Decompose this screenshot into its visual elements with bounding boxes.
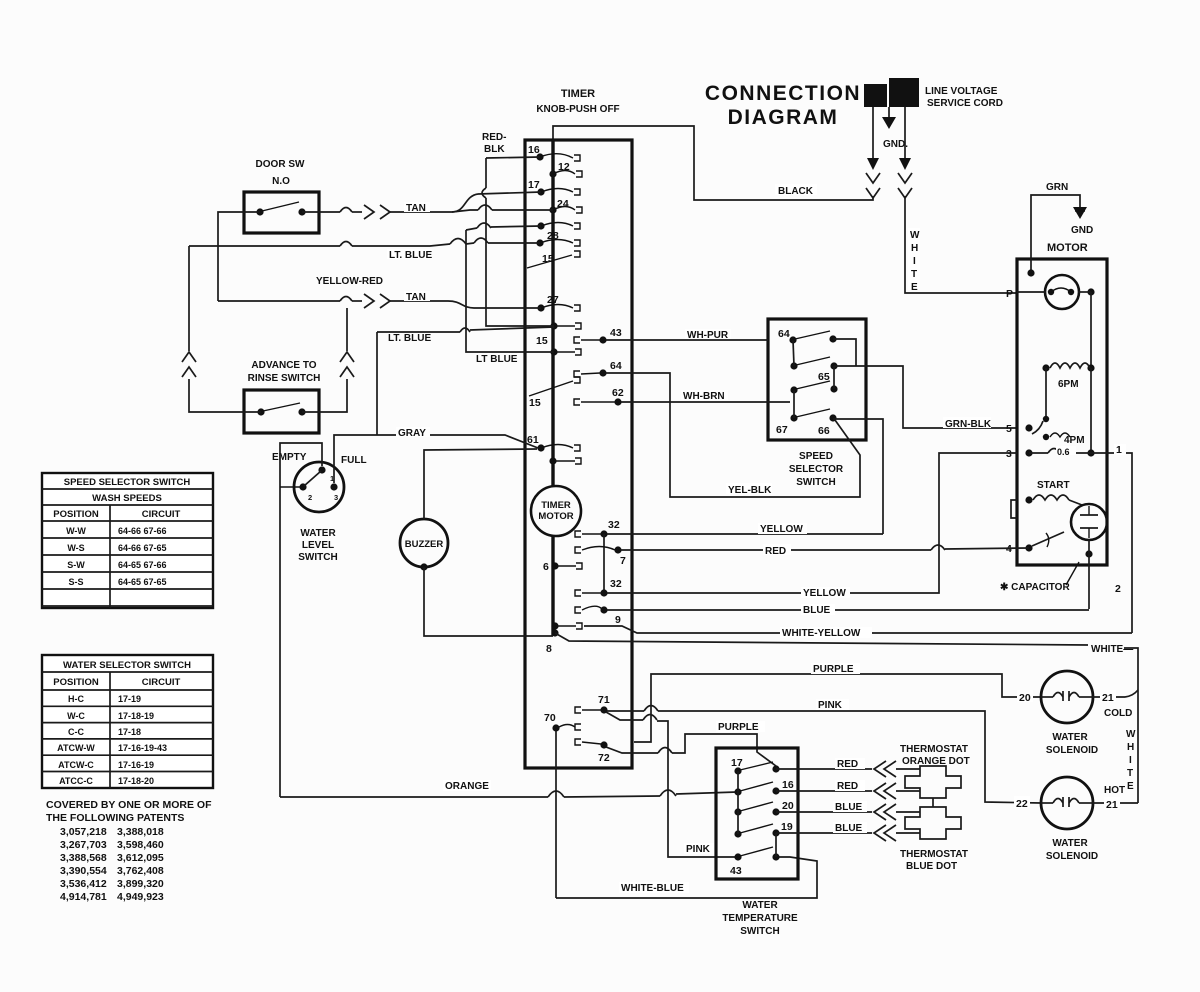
table speed selector switch (42, 473, 213, 608)
wire GRN (motor ground) (1027, 182, 1080, 277)
svg-text:71: 71 (598, 694, 610, 706)
svg-text:1: 1 (1116, 444, 1122, 456)
timer node 61 (527, 434, 580, 452)
svg-text:GND: GND (1071, 225, 1093, 236)
ground (motor) (1071, 207, 1093, 236)
svg-text:WATER: WATER (300, 528, 336, 539)
svg-text:YEL-BLK: YEL-BLK (728, 485, 772, 496)
svg-text:17: 17 (731, 757, 743, 769)
svg-text:ADVANCE TO: ADVANCE TO (251, 360, 316, 371)
svg-text:THERMOSTAT: THERMOSTAT (900, 849, 968, 860)
svg-text:BLUE: BLUE (835, 823, 863, 834)
wire RED (lower, water temp switch 16) (776, 780, 920, 799)
svg-text:START: START (1037, 480, 1070, 491)
wire left feeder (lt.blue riser to rinse switch) (182, 246, 261, 412)
svg-text:3: 3 (1006, 448, 1012, 460)
svg-text:WASH SPEEDS: WASH SPEEDS (92, 493, 162, 504)
line voltage service cord plug J1 (864, 78, 1003, 109)
svg-text:I: I (1129, 755, 1132, 766)
svg-text:PINK: PINK (686, 844, 711, 855)
svg-text:64-65 67-66: 64-65 67-66 (118, 560, 167, 570)
svg-text:3,899,320: 3,899,320 (117, 878, 164, 890)
svg-text:RED-: RED- (482, 132, 506, 143)
svg-text:3,390,554: 3,390,554 (60, 865, 107, 877)
wire PURPLE (timer 72 branch to water temp switch) (606, 721, 776, 766)
svg-text:SELECTOR: SELECTOR (789, 464, 844, 475)
svg-text:15: 15 (536, 335, 548, 347)
svg-text:H: H (1127, 742, 1134, 753)
title CONNECTION DIAGRAM (705, 82, 861, 129)
wire WHITE (timer 8 to solenoids) (555, 633, 1138, 803)
svg-text:67: 67 (776, 424, 788, 436)
svg-text:W-W: W-W (66, 526, 86, 536)
water temperature switch S5 (716, 748, 798, 937)
svg-text:9: 9 (615, 614, 621, 626)
capacitor C1 (1000, 504, 1121, 595)
svg-text:LT. BLUE: LT. BLUE (388, 333, 431, 344)
wire buzzer top to timer 61 (424, 449, 537, 519)
svg-text:BLUE: BLUE (803, 605, 831, 616)
svg-text:LT BLUE: LT BLUE (476, 354, 518, 365)
wire line cord black pin (866, 107, 880, 198)
svg-text:WHITE-YELLOW: WHITE-YELLOW (782, 628, 861, 639)
svg-text:DOOR SW: DOOR SW (256, 159, 305, 170)
svg-text:GRN: GRN (1046, 182, 1068, 193)
svg-text:W: W (910, 230, 920, 241)
svg-text:3,057,218: 3,057,218 (60, 826, 107, 838)
svg-text:BLACK: BLACK (778, 186, 814, 197)
wire BLUE (lower, water temp switch 19) (776, 822, 920, 841)
wire YEL-BLK (timer 64 to speed selector 66) (606, 373, 860, 497)
svg-text:W-C: W-C (67, 711, 85, 721)
svg-text:SWITCH: SWITCH (298, 552, 337, 563)
wire door switch left riser (218, 212, 260, 301)
timer contact node (537, 222, 580, 229)
svg-text:TIMER: TIMER (541, 500, 571, 511)
svg-text:WATER: WATER (742, 900, 778, 911)
svg-text:SOLENOID: SOLENOID (1046, 851, 1098, 862)
wire WHITE-YELLOW (timer 8 to motor 1) (584, 444, 1132, 639)
motor node 3 / winding 0.6 / node 1 (1006, 446, 1113, 460)
wire speed selector 66 to yellow row (833, 419, 883, 534)
svg-text:WH-BRN: WH-BRN (683, 391, 725, 402)
svg-text:WATER SELECTOR SWITCH: WATER SELECTOR SWITCH (63, 660, 191, 671)
svg-text:LINE VOLTAGE: LINE VOLTAGE (925, 86, 998, 97)
thermostat orange dot TH1 (900, 744, 970, 798)
timer contact 27 (537, 294, 580, 312)
svg-text:BLUE: BLUE (835, 802, 863, 813)
svg-text:64: 64 (778, 328, 790, 340)
timer node 6 (543, 561, 582, 573)
motor start winding (1011, 480, 1082, 518)
svg-text:SPEED SELECTOR SWITCH: SPEED SELECTOR SWITCH (64, 477, 191, 488)
svg-text:22: 22 (1016, 798, 1028, 810)
svg-text:POSITION: POSITION (53, 677, 99, 688)
svg-text:HOT: HOT (1104, 785, 1125, 796)
svg-text:T: T (911, 269, 917, 280)
wire PURPLE (timer 72 to cold solenoid 20) (634, 663, 1041, 742)
svg-text:H-C: H-C (68, 694, 84, 704)
svg-text:WATER: WATER (1052, 838, 1088, 849)
svg-text:20: 20 (782, 800, 794, 812)
wire water level switch to orange feed (280, 443, 322, 797)
thermostat blue dot TH2 (900, 798, 968, 872)
svg-text:THERMOSTAT: THERMOSTAT (900, 744, 968, 755)
svg-text:THE FOLLOWING PATENTS: THE FOLLOWING PATENTS (46, 812, 184, 824)
svg-text:3,598,460: 3,598,460 (117, 839, 164, 851)
svg-text:P: P (1006, 288, 1013, 300)
svg-text:20: 20 (1019, 692, 1031, 704)
svg-text:BLK: BLK (484, 144, 505, 155)
svg-text:W-S: W-S (67, 543, 84, 553)
advance to rinse switch S2 (244, 360, 320, 433)
svg-text:28: 28 (547, 230, 559, 242)
wire PINK (timer 71 to hot solenoid 22) (607, 699, 1041, 803)
svg-text:32: 32 (608, 519, 620, 531)
svg-text:17-16-19: 17-16-19 (118, 760, 154, 770)
speed selector switch S4 (768, 319, 866, 488)
wire GRN-BLK (speed selector 65 to motor 5) (866, 366, 1017, 430)
svg-text:15: 15 (542, 253, 554, 265)
svg-text:TEMPERATURE: TEMPERATURE (722, 913, 798, 924)
svg-text:N.O: N.O (272, 176, 290, 187)
svg-text:17-18: 17-18 (118, 727, 141, 737)
buzzer BZ1 (400, 519, 448, 571)
table water selector switch (42, 655, 213, 788)
svg-text:2: 2 (1115, 583, 1121, 595)
svg-text:4PM: 4PM (1064, 435, 1085, 446)
svg-text:65: 65 (818, 371, 830, 383)
timer contact 28 (536, 230, 580, 247)
svg-text:POSITION: POSITION (53, 509, 99, 520)
motor node 5 (1006, 416, 1085, 446)
svg-text:WHITE-BLUE: WHITE-BLUE (621, 883, 684, 894)
svg-text:BUZZER: BUZZER (405, 539, 444, 550)
wire PINK (timer 71 branch to water temp switch 43) (606, 712, 738, 857)
motor main winding 6PM (1042, 363, 1094, 453)
wire timer bus (551, 140, 554, 636)
svg-text:19: 19 (781, 821, 793, 833)
svg-text:CIRCUIT: CIRCUIT (142, 509, 181, 520)
svg-text:3: 3 (334, 493, 338, 502)
wire BLUE (water temp switch 20 to thermostat blue) (776, 801, 920, 820)
svg-text:RED: RED (837, 759, 858, 770)
wire BLUE (timer 9 to motor 2) (607, 604, 1089, 616)
svg-text:5: 5 (1006, 423, 1012, 435)
timer contact 17 (528, 179, 580, 196)
svg-text:15: 15 (529, 397, 541, 409)
svg-text:GRN-BLK: GRN-BLK (945, 419, 992, 430)
svg-text:16: 16 (528, 144, 540, 156)
patents note (46, 799, 212, 903)
svg-text:✱ CAPACITOR: ✱ CAPACITOR (1000, 582, 1070, 593)
timer node 72 (575, 739, 610, 764)
svg-text:TIMER: TIMER (561, 88, 595, 100)
svg-text:C-C: C-C (68, 727, 84, 737)
wire WH-BRN (timer 62 to speed selector) (621, 390, 790, 402)
cold water solenoid L1 (1017, 671, 1138, 756)
svg-text:PURPLE: PURPLE (813, 664, 854, 675)
hot water solenoid L2 (1014, 777, 1138, 862)
wire LT. BLUE (to timer 15) (377, 327, 554, 435)
svg-text:LT. BLUE: LT. BLUE (389, 250, 432, 261)
svg-text:I: I (913, 256, 916, 267)
motor node 4 (1006, 532, 1064, 555)
wire line cord white pin (898, 107, 912, 198)
motor box (1017, 242, 1107, 565)
svg-text:WH-PUR: WH-PUR (687, 330, 729, 341)
svg-text:YELLOW: YELLOW (760, 524, 803, 535)
wire WH-PUR (timer 43 to speed selector) (606, 329, 768, 341)
svg-text:MOTOR: MOTOR (538, 511, 573, 522)
svg-text:SERVICE CORD: SERVICE CORD (927, 98, 1003, 109)
svg-text:17: 17 (528, 179, 540, 191)
svg-text:TAN: TAN (406, 203, 426, 214)
svg-text:T: T (1127, 768, 1133, 779)
svg-text:FULL: FULL (341, 455, 367, 466)
svg-text:LEVEL: LEVEL (302, 540, 334, 551)
svg-text:BLUE DOT: BLUE DOT (906, 861, 957, 872)
svg-text:3,388,018: 3,388,018 (117, 826, 164, 838)
wire WHITE (line to motor P) (905, 196, 1017, 300)
svg-text:7: 7 (620, 555, 626, 567)
svg-text:SWITCH: SWITCH (796, 477, 835, 488)
svg-text:CONNECTION: CONNECTION (705, 82, 861, 105)
svg-text:YELLOW-RED: YELLOW-RED (316, 276, 383, 287)
timer node 8 (546, 622, 582, 655)
svg-text:CIRCUIT: CIRCUIT (142, 677, 181, 688)
svg-text:17-18-19: 17-18-19 (118, 711, 154, 721)
svg-text:43: 43 (730, 865, 742, 877)
timer contact 12 (549, 161, 582, 178)
svg-text:72: 72 (598, 752, 610, 764)
wire WHITE (vertical label between solenoids) (1126, 729, 1136, 792)
svg-text:21: 21 (1106, 799, 1118, 811)
svg-text:YELLOW: YELLOW (803, 588, 846, 599)
svg-text:3,388,568: 3,388,568 (60, 852, 107, 864)
svg-text:ATCC-C: ATCC-C (59, 776, 93, 786)
svg-text:RINSE SWITCH: RINSE SWITCH (248, 373, 321, 384)
timer node 7 (575, 546, 626, 567)
svg-text:ATCW-W: ATCW-W (57, 743, 95, 753)
timer motor M1 (531, 486, 581, 536)
wire TAN (door switch to timer 17) (302, 192, 553, 219)
motor thermal protector (1017, 275, 1095, 368)
wire RED-BLK (to timer 16) (482, 132, 554, 326)
svg-text:DIAGRAM: DIAGRAM (728, 106, 839, 129)
svg-text:MOTOR: MOTOR (1047, 242, 1088, 254)
wire WHITE-BLUE (timer 70 to water temp switch) (556, 857, 817, 898)
svg-text:64-66 67-65: 64-66 67-65 (118, 543, 167, 553)
svg-text:ORANGE DOT: ORANGE DOT (902, 756, 970, 767)
svg-text:3,267,703: 3,267,703 (60, 839, 107, 851)
wire ORANGE (water level switch to water temp switch) (280, 780, 737, 797)
timer node 64 (574, 360, 622, 377)
svg-text:TAN: TAN (406, 292, 426, 303)
motor node 2 wire (1085, 540, 1092, 609)
svg-text:PURPLE: PURPLE (718, 722, 759, 733)
timer node 43 (574, 327, 622, 344)
svg-text:64-65 67-65: 64-65 67-65 (118, 577, 167, 587)
svg-text:KNOB-PUSH OFF: KNOB-PUSH OFF (536, 104, 619, 115)
svg-text:RED: RED (837, 781, 858, 792)
svg-text:32: 32 (610, 578, 622, 590)
svg-text:WHITE—: WHITE— (1091, 644, 1133, 655)
svg-text:SPEED: SPEED (799, 451, 833, 462)
timer contact 24 (549, 198, 582, 214)
svg-text:0.6: 0.6 (1057, 447, 1070, 457)
wire YELLOW-RED / TAN (to timer 27) (218, 276, 541, 308)
timer node 32 (lower) (575, 578, 622, 597)
svg-text:SWITCH: SWITCH (740, 926, 779, 937)
svg-text:GRAY: GRAY (398, 428, 426, 439)
svg-text:ORANGE: ORANGE (445, 781, 489, 792)
wire LT. BLUE (to timer 24) (189, 238, 540, 261)
svg-text:17-18-20: 17-18-20 (118, 776, 154, 786)
svg-text:6PM: 6PM (1058, 379, 1079, 390)
timer bus node (below 61) (549, 457, 581, 464)
svg-text:4,914,781: 4,914,781 (60, 891, 107, 903)
svg-text:8: 8 (546, 643, 552, 655)
timer node 15 (lower) (529, 348, 581, 409)
svg-text:12: 12 (558, 161, 570, 173)
svg-text:H: H (911, 243, 918, 254)
svg-text:16: 16 (782, 779, 794, 791)
ground (line cord) (882, 107, 908, 150)
svg-text:64: 64 (610, 360, 622, 372)
svg-text:ATCW-C: ATCW-C (58, 760, 94, 770)
svg-text:2: 2 (308, 493, 312, 502)
timer contact 15 (upper) (527, 251, 580, 268)
svg-text:WATER: WATER (1052, 732, 1088, 743)
svg-text:43: 43 (610, 327, 622, 339)
svg-text:COVERED BY ONE OR MORE OF: COVERED BY ONE OR MORE OF (46, 799, 212, 811)
water level switch S3 (272, 452, 367, 563)
door switch S1 (244, 159, 319, 233)
svg-text:27: 27 (547, 294, 559, 306)
svg-text:S-W: S-W (67, 560, 85, 570)
wire RED (water temp switch to thermostat orange) (776, 758, 920, 777)
svg-text:3,536,412: 3,536,412 (60, 878, 107, 890)
wire RED (timer 7 to motor 4) (621, 544, 1029, 557)
svg-text:E: E (911, 282, 918, 293)
timer node 32 (upper) (575, 519, 620, 593)
timer contact 16 (528, 144, 580, 161)
wire riser rinse switch to tan row (302, 308, 354, 412)
wire GRAY (water level switch to timer 61) (334, 427, 538, 483)
svg-text:RED: RED (765, 546, 786, 557)
svg-text:COLD: COLD (1104, 708, 1132, 719)
svg-text:17-19: 17-19 (118, 694, 141, 704)
timer node 70 (544, 712, 581, 732)
svg-text:EMPTY: EMPTY (272, 452, 307, 463)
timer node 62 (574, 387, 624, 406)
wire buzzer bottom to timer node 8 (424, 567, 553, 636)
wire YELLOW (timer 32 lower to motor 3) (607, 453, 1017, 599)
svg-text:64-66 67-66: 64-66 67-66 (118, 526, 167, 536)
svg-text:70: 70 (544, 712, 556, 724)
svg-text:6: 6 (543, 561, 549, 573)
svg-text:W: W (1126, 729, 1136, 740)
wire timer 70 descender (555, 731, 557, 898)
wire YELLOW (timer 32 to speed selector riser) (607, 523, 883, 535)
timer box (525, 88, 632, 768)
svg-text:66: 66 (818, 425, 830, 437)
svg-text:PINK: PINK (818, 700, 843, 711)
svg-text:SOLENOID: SOLENOID (1046, 745, 1098, 756)
svg-text:3,612,095: 3,612,095 (117, 852, 164, 864)
wire LT BLUE feeder (to timer 15 lower) (466, 223, 554, 365)
svg-text:21: 21 (1102, 692, 1114, 704)
svg-text:3,762,408: 3,762,408 (117, 865, 164, 877)
svg-text:24: 24 (557, 198, 569, 210)
timer node 15 (mid) (536, 322, 581, 347)
svg-text:E: E (1127, 781, 1134, 792)
svg-text:4,949,923: 4,949,923 (117, 891, 164, 903)
svg-text:S-S: S-S (68, 577, 83, 587)
wire BLACK (line to timer) (553, 126, 873, 200)
timer node 71 (575, 694, 610, 714)
svg-text:17-16-19-43: 17-16-19-43 (118, 743, 167, 753)
timer node 9 (575, 606, 621, 626)
svg-text:62: 62 (612, 387, 624, 399)
